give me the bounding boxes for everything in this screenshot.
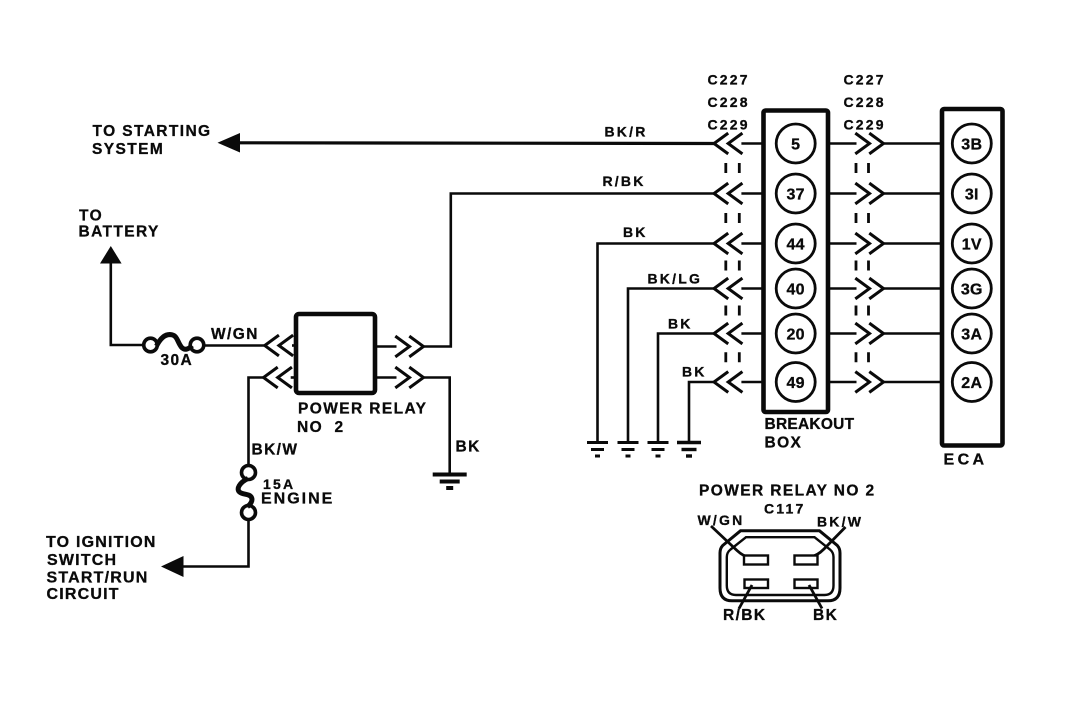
svg-text:BK: BK [813,607,838,624]
connector chevrons left row 20 [714,324,727,343]
svg-text:C117: C117 [764,501,806,517]
svg-text:30A: 30A [161,352,194,369]
dashed connector line C227/C228/C229 (right) [856,163,869,362]
connector chevrons relay pin3 [397,337,410,356]
wire relay coil to 15A fuse [249,378,266,466]
breakout pin 40 [776,269,815,308]
connector chevrons left row 5 [714,134,727,153]
connector C117 pin BK/W [795,556,818,565]
ground G3 [618,441,639,444]
breakout pin 5 [776,124,815,163]
arrow to starting system [218,133,241,153]
fuse F2 15A ENGINE [242,466,256,480]
svg-text:SWITCH: SWITCH [47,552,117,569]
svg-text:TO: TO [79,208,103,225]
ground G4 [648,441,669,444]
wire BK/LG to breakout pin 40 [628,289,714,443]
svg-text:W/GN: W/GN [211,326,259,343]
wire to ignition switch [182,520,249,567]
svg-text:2A: 2A [961,375,982,392]
ECA pin 3G [952,269,991,308]
svg-text:C228: C228 [708,94,750,110]
svg-text:C227: C227 [708,72,750,88]
svg-text:40: 40 [786,281,804,298]
connector C117 outline [720,531,840,601]
breakout box [764,111,829,413]
svg-text:3I: 3I [965,186,979,203]
ground G1 (relay) [433,473,467,477]
wire BK to breakout pin 20 [658,334,714,443]
svg-text:BK/W: BK/W [252,442,299,459]
leader line BK from pin [809,585,822,609]
connector chevrons relay pin2 [264,368,277,387]
arrow to battery [100,246,122,264]
connector C117 pin BK [795,580,818,589]
wire battery to fuse [111,262,145,345]
ECA pin 1V [952,224,991,263]
svg-text:POWER RELAY NO 2: POWER RELAY NO 2 [699,483,876,500]
connector chevrons left row 49 [714,373,727,392]
svg-text:C229: C229 [844,117,886,133]
breakout pin 37 [776,174,815,213]
svg-text:BREAKOUT: BREAKOUT [765,416,855,433]
svg-text:C229: C229 [708,117,750,133]
svg-text:BK: BK [682,364,707,380]
wire breakout 20 to ECA 3A [828,332,857,335]
svg-text:ENGINE: ENGINE [261,491,334,508]
connector chevrons right row 37 [857,184,870,203]
svg-text:NO 2: NO 2 [297,419,344,436]
ECA pin 3B [952,124,991,163]
svg-text:START/RUN: START/RUN [47,570,149,587]
connector chevrons left row 40 [714,279,727,298]
wire breakout 37 to ECA 3I [828,192,857,195]
svg-text:5: 5 [791,136,800,153]
connector C117 pin W/GN [744,556,768,565]
connector chevrons left row 44 [714,234,727,253]
connector chevrons relay pin1 [265,336,278,355]
wire fuse to relay [204,344,265,347]
arrow to ignition switch [161,556,184,577]
connector chevrons right row 44 [857,234,870,253]
leader line R/BK from pin [739,585,752,609]
wire breakout 40 to ECA 3G [828,287,857,290]
wire breakout 44 to ECA 1V [828,242,857,245]
svg-text:C227: C227 [844,72,886,88]
connector chevrons right row 40 [857,279,870,298]
svg-text:BOX: BOX [765,435,803,452]
svg-text:SYSTEM: SYSTEM [92,141,164,158]
svg-text:BK/LG: BK/LG [648,271,703,287]
svg-text:BATTERY: BATTERY [79,224,160,241]
svg-text:3G: 3G [961,281,983,298]
connector C117 pin R/BK [745,580,769,589]
svg-text:CIRCUIT: CIRCUIT [47,586,120,603]
dashed connector line C227/C228/C229 (left) [726,163,740,362]
svg-text:BK: BK [456,439,481,456]
power relay box K1 [296,314,375,393]
svg-text:49: 49 [786,375,804,392]
breakout pin 44 [776,224,815,263]
wire BK to breakout pin 49 [689,382,714,443]
ECA pin 2A [952,363,991,402]
svg-text:3A: 3A [961,326,982,343]
svg-text:W/GN: W/GN [698,512,745,528]
ground G5 [677,441,701,444]
svg-text:1V: 1V [962,236,982,253]
svg-text:ECA: ECA [944,452,988,469]
connector chevrons right row 49 [857,373,870,392]
svg-text:POWER RELAY: POWER RELAY [298,401,427,418]
wire breakout 49 to ECA 2A [828,381,857,384]
ECA pin 3A [952,314,991,353]
svg-text:BK: BK [668,316,693,332]
wire relay output R/BK [375,345,397,348]
fuse F1 30A [144,338,158,352]
svg-text:BK: BK [623,224,648,240]
connector chevrons right row 5 [857,134,870,153]
ground G2 [587,441,608,444]
wire breakout 5 to ECA 3B [828,142,857,145]
leader line W/GN to pin [711,526,749,557]
ECA box [942,109,1003,446]
wire BK to breakout pin 44 [598,244,715,443]
connector chevrons right row 20 [857,324,870,343]
svg-text:C228: C228 [844,94,886,110]
connector chevrons relay pin4 [397,368,410,387]
svg-text:BK/R: BK/R [605,124,648,140]
svg-text:TO STARTING: TO STARTING [93,123,212,140]
wire relay to ground BK [375,376,397,379]
ECA pin 3I [952,174,991,213]
svg-text:37: 37 [786,186,804,203]
svg-text:R/BK: R/BK [723,607,767,624]
wire BK/R [238,141,714,145]
svg-text:R/BK: R/BK [603,173,646,189]
svg-text:BK/W: BK/W [817,514,863,530]
breakout pin 20 [776,314,815,353]
breakout pin 49 [776,363,815,402]
leader line BK/W to pin [810,527,846,557]
svg-text:TO IGNITION: TO IGNITION [46,534,157,551]
svg-text:20: 20 [786,326,804,343]
connector chevrons left row 37 [714,184,727,203]
svg-text:44: 44 [786,236,804,253]
svg-text:3B: 3B [961,136,982,153]
